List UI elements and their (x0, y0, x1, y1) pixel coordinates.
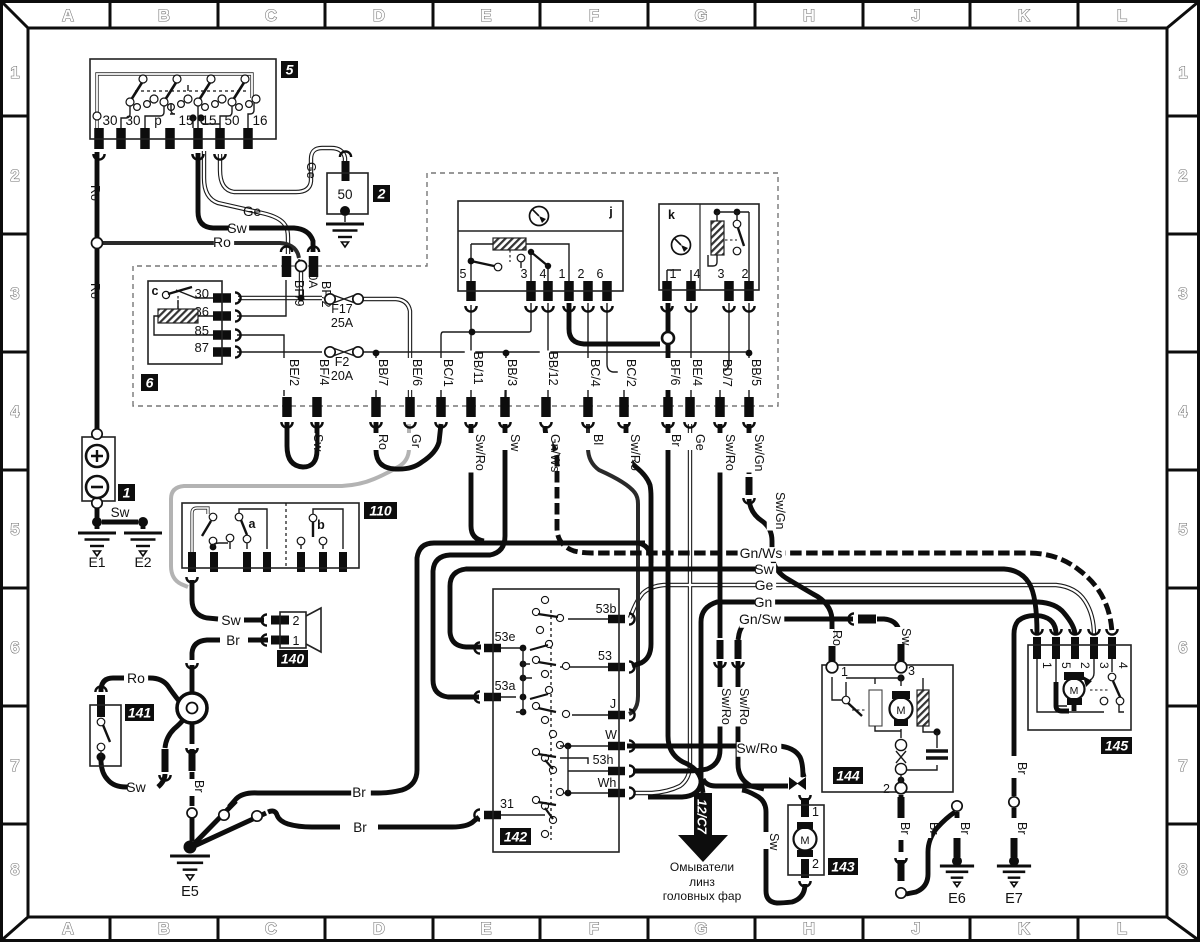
svg-text:2: 2 (742, 267, 749, 281)
svg-text:D: D (373, 920, 385, 938)
svg-text:2: 2 (578, 267, 585, 281)
svg-text:6: 6 (10, 639, 19, 657)
svg-text:Омыватели: Омыватели (670, 860, 734, 874)
svg-text:E7: E7 (1005, 891, 1023, 907)
svg-text:5: 5 (1178, 521, 1187, 539)
svg-text:b: b (317, 518, 325, 532)
svg-text:E5: E5 (181, 884, 199, 900)
svg-text:8: 8 (10, 861, 19, 879)
svg-text:1: 1 (123, 485, 131, 501)
svg-text:Sw/Ro: Sw/Ro (723, 434, 737, 471)
svg-text:Sw/Gn: Sw/Gn (773, 492, 787, 530)
svg-text:головных фар: головных фар (663, 889, 742, 903)
svg-text:2: 2 (377, 186, 386, 202)
svg-text:E6: E6 (948, 891, 966, 907)
svg-text:6: 6 (597, 267, 604, 281)
svg-text:B: B (158, 920, 170, 938)
svg-text:Br: Br (192, 780, 206, 793)
svg-text:3: 3 (908, 664, 915, 678)
svg-text:2: 2 (883, 782, 890, 796)
svg-text:1: 1 (812, 805, 819, 819)
svg-text:Br: Br (898, 822, 912, 835)
svg-text:K: K (1018, 920, 1030, 938)
svg-text:BB/11: BB/11 (471, 352, 485, 385)
svg-text:Sw: Sw (111, 505, 130, 520)
svg-text:3: 3 (521, 267, 528, 281)
svg-text:2: 2 (1078, 662, 1092, 669)
svg-text:Sw: Sw (767, 833, 781, 851)
svg-text:Sw: Sw (311, 434, 325, 452)
svg-text:85: 85 (195, 323, 209, 338)
svg-text:Br: Br (352, 785, 366, 800)
svg-text:F: F (589, 920, 599, 938)
svg-text:140: 140 (281, 651, 305, 667)
svg-text:Sw: Sw (126, 779, 146, 795)
svg-text:A: A (62, 7, 74, 25)
svg-text:6: 6 (146, 375, 154, 391)
svg-text:110: 110 (369, 503, 392, 519)
svg-text:Ro: Ro (213, 234, 231, 250)
svg-text:1: 1 (10, 64, 19, 82)
svg-text:Ro: Ro (88, 185, 102, 201)
svg-text:J: J (610, 697, 616, 711)
svg-text:30: 30 (125, 113, 140, 128)
svg-text:Ge: Ge (243, 204, 261, 219)
svg-text:Sw: Sw (754, 561, 774, 577)
svg-text:Ro: Ro (376, 434, 390, 450)
svg-text:50: 50 (337, 187, 352, 202)
svg-text:1: 1 (841, 665, 848, 679)
svg-text:j: j (608, 205, 612, 219)
svg-text:Sw: Sw (899, 628, 913, 646)
svg-text:Sw/Ro: Sw/Ro (737, 688, 751, 725)
svg-text:BC/1: BC/1 (441, 359, 455, 387)
svg-text:1: 1 (1040, 662, 1054, 669)
svg-text:2: 2 (812, 857, 819, 871)
svg-text:50: 50 (224, 113, 239, 128)
svg-text:25A: 25A (331, 316, 354, 330)
svg-text:Ro: Ro (127, 670, 145, 686)
svg-text:53: 53 (598, 649, 612, 663)
svg-text:4: 4 (1116, 662, 1130, 669)
svg-text:B: B (158, 7, 170, 25)
svg-text:53a: 53a (495, 679, 516, 693)
svg-text:Br: Br (1015, 822, 1029, 835)
svg-text:BB/5: BB/5 (749, 359, 763, 386)
svg-text:3: 3 (10, 285, 19, 303)
svg-text:4: 4 (1178, 403, 1188, 421)
svg-text:p: p (154, 113, 162, 128)
svg-text:K: K (1018, 7, 1030, 25)
svg-text:F17: F17 (331, 302, 353, 316)
svg-text:141: 141 (128, 705, 152, 721)
svg-text:a: a (249, 517, 257, 531)
svg-text:BD/7: BD/7 (720, 359, 734, 387)
svg-text:Gn/Ws: Gn/Ws (548, 434, 562, 472)
svg-text:144: 144 (836, 768, 860, 784)
svg-text:20A: 20A (331, 369, 354, 383)
svg-text:C: C (265, 920, 277, 938)
svg-text:3: 3 (1097, 662, 1111, 669)
svg-text:Ro: Ro (830, 630, 844, 646)
svg-text:5: 5 (1059, 662, 1073, 669)
svg-text:5: 5 (286, 62, 294, 78)
svg-text:Br: Br (353, 820, 367, 835)
svg-text:Gr: Gr (409, 434, 423, 448)
svg-text:BC/2: BC/2 (624, 359, 638, 387)
svg-text:12/C7: 12/C7 (695, 799, 710, 834)
svg-text:142: 142 (504, 829, 528, 845)
svg-text:J: J (911, 7, 920, 25)
svg-text:L: L (1117, 7, 1127, 25)
svg-text:2: 2 (293, 614, 300, 628)
svg-text:3: 3 (718, 267, 725, 281)
svg-text:G: G (695, 7, 708, 25)
svg-text:Br: Br (1015, 762, 1029, 775)
svg-text:Ge: Ge (755, 577, 774, 593)
svg-text:BE/4: BE/4 (690, 359, 704, 386)
svg-text:Bl: Bl (591, 434, 605, 445)
svg-text:1: 1 (670, 267, 677, 281)
svg-text:Br: Br (226, 633, 240, 648)
svg-text:M: M (896, 705, 905, 717)
svg-text:L: L (1117, 920, 1127, 938)
svg-text:H: H (803, 7, 815, 25)
svg-text:BE/2: BE/2 (287, 359, 301, 386)
svg-text:W: W (605, 728, 617, 742)
svg-text:k: k (668, 208, 675, 222)
svg-text:5: 5 (460, 267, 467, 281)
svg-text:BB/3: BB/3 (505, 359, 519, 386)
svg-text:7: 7 (1178, 757, 1187, 775)
svg-text:G: G (695, 920, 708, 938)
svg-text:4: 4 (10, 403, 20, 421)
svg-text:1: 1 (559, 267, 566, 281)
svg-text:6: 6 (1178, 639, 1187, 657)
svg-text:Gn: Gn (754, 594, 773, 610)
svg-text:15: 15 (201, 113, 216, 128)
svg-text:E: E (480, 920, 491, 938)
svg-text:4: 4 (540, 267, 547, 281)
svg-text:J: J (911, 920, 920, 938)
svg-text:BF/6: BF/6 (668, 359, 682, 385)
svg-text:H: H (803, 920, 815, 938)
svg-text:7: 7 (10, 757, 19, 775)
svg-text:Gn/Ws: Gn/Ws (740, 545, 783, 561)
svg-text:1: 1 (293, 634, 300, 648)
svg-text:Gn/Sw: Gn/Sw (739, 611, 782, 627)
svg-text:C: C (265, 7, 277, 25)
svg-text:53e: 53e (495, 630, 516, 644)
svg-text:145: 145 (1105, 738, 1129, 754)
svg-text:Sw/Ro: Sw/Ro (628, 434, 642, 471)
svg-text:Sw/Ro: Sw/Ro (736, 740, 777, 756)
svg-text:30: 30 (102, 113, 117, 128)
svg-text:c: c (152, 284, 159, 298)
svg-text:Sw/Ro: Sw/Ro (473, 434, 487, 471)
svg-text:1: 1 (1178, 64, 1187, 82)
svg-text:BB/7: BB/7 (376, 359, 390, 386)
svg-text:Ge: Ge (693, 434, 707, 451)
svg-text:30: 30 (195, 286, 209, 301)
svg-text:Sw: Sw (221, 612, 241, 628)
svg-text:31: 31 (500, 797, 514, 811)
svg-text:BF/9: BF/9 (292, 280, 306, 306)
svg-text:BB/12: BB/12 (546, 352, 560, 386)
svg-text:143: 143 (831, 859, 855, 875)
svg-text:Ge: Ge (304, 162, 318, 179)
svg-text:87: 87 (195, 340, 209, 355)
svg-text:3: 3 (1178, 285, 1187, 303)
svg-text:Ro: Ro (88, 283, 102, 299)
svg-text:BE/6: BE/6 (410, 359, 424, 386)
svg-text:2: 2 (1178, 167, 1187, 185)
svg-text:Br: Br (669, 434, 683, 447)
svg-text:BC/4: BC/4 (588, 359, 602, 387)
svg-text:линз: линз (689, 875, 715, 889)
svg-text:Wh: Wh (598, 776, 617, 790)
svg-text:8: 8 (1178, 861, 1187, 879)
svg-text:Sw/Gn: Sw/Gn (752, 434, 766, 472)
svg-text:Sw: Sw (508, 434, 522, 452)
svg-text:A: A (62, 920, 74, 938)
svg-text:Br: Br (958, 822, 972, 835)
svg-text:F: F (589, 7, 599, 25)
svg-text:53h: 53h (593, 753, 614, 767)
svg-text:5: 5 (10, 521, 19, 539)
svg-text:M: M (1070, 685, 1079, 697)
svg-text:M: M (800, 835, 809, 847)
svg-text:E: E (480, 7, 491, 25)
svg-text:53b: 53b (596, 602, 617, 616)
svg-text:16: 16 (252, 113, 267, 128)
svg-text:F2: F2 (335, 355, 350, 369)
svg-text:D: D (373, 7, 385, 25)
svg-text:Br: Br (927, 822, 941, 835)
svg-text:BF/4: BF/4 (317, 359, 331, 385)
svg-text:2: 2 (10, 167, 19, 185)
